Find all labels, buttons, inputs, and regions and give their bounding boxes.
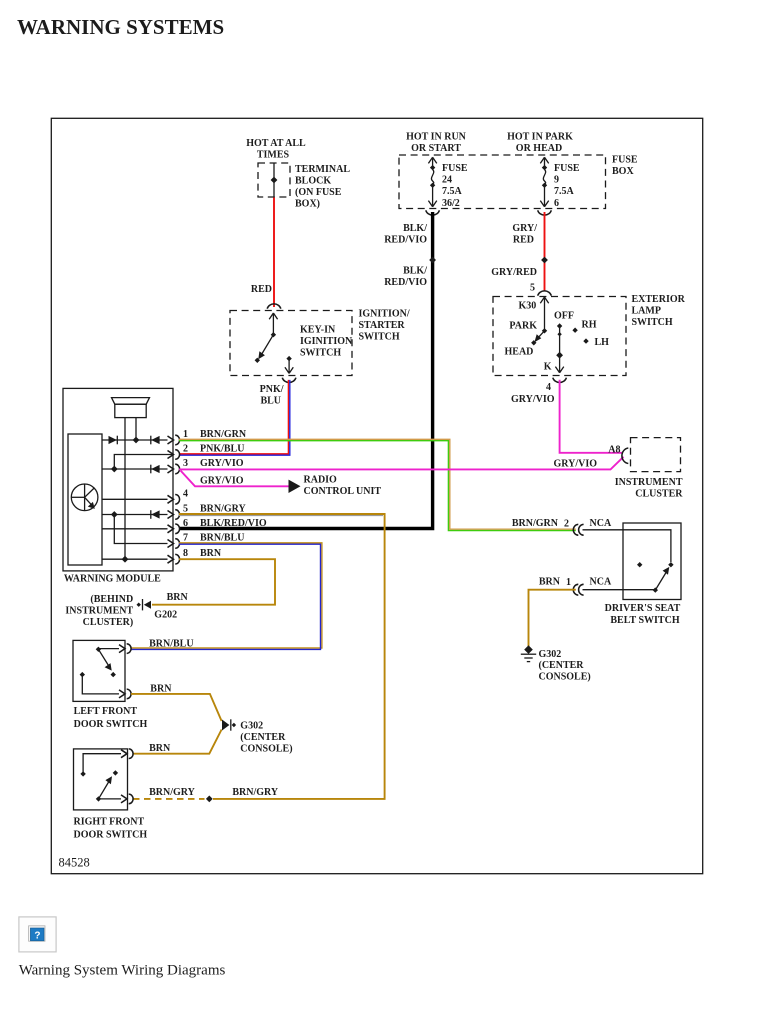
- svg-text:BRN/GRN: BRN/GRN: [200, 429, 247, 440]
- svg-text:24: 24: [442, 175, 452, 186]
- svg-text:1: 1: [566, 577, 571, 588]
- wire BRN pin 8 to ground G202: [152, 559, 275, 605]
- svg-text:4: 4: [183, 488, 188, 499]
- wire PNK/BLU pink strand: [179, 380, 288, 454]
- wire BRN/GRY gray strand pin 5: [179, 514, 383, 516]
- svg-text:BRN: BRN: [149, 743, 171, 754]
- svg-text:BLK/: BLK/: [403, 223, 427, 234]
- svg-text:HOT IN PARK: HOT IN PARK: [507, 132, 573, 143]
- lamp switch wiper arm toward HEAD: [534, 331, 544, 342]
- right door switch top contact and lead: [80, 754, 121, 777]
- svg-text:INSTRUMENT: INSTRUMENT: [615, 477, 683, 488]
- label RADIO CONTROL UNIT: [304, 475, 382, 498]
- svg-text:GRY/VIO: GRY/VIO: [200, 475, 244, 486]
- seat belt switch upper contact: [668, 562, 673, 567]
- svg-text:BRN/GRN: BRN/GRN: [512, 518, 559, 529]
- svg-text:2: 2: [564, 519, 569, 530]
- ground G302 center console (seat belt): [521, 645, 536, 661]
- svg-text:5: 5: [530, 283, 535, 294]
- lamp switch LH contact: [583, 338, 588, 343]
- svg-text:DOOR SWITCH: DOOR SWITCH: [74, 719, 148, 730]
- svg-text:BRN: BRN: [200, 548, 222, 559]
- svg-text:9: 9: [554, 175, 559, 186]
- svg-text:2: 2: [183, 444, 188, 455]
- lamp switch HEAD contact: [531, 340, 536, 345]
- svg-text:36/2: 36/2: [442, 198, 460, 209]
- module pin 8 connector: [168, 554, 180, 564]
- wire BRN/GRN green strand: [179, 441, 576, 531]
- svg-text:NCA: NCA: [590, 577, 612, 588]
- svg-text:PNK/: PNK/: [260, 384, 284, 395]
- svg-text:(BEHIND: (BEHIND: [90, 594, 133, 605]
- driver's seat belt switch box: [623, 523, 681, 600]
- svg-text:7: 7: [183, 533, 188, 544]
- seat belt pin 2 connector: [573, 524, 583, 535]
- junction diamond speaker to row 8: [122, 556, 129, 563]
- broken image icon box: [19, 917, 56, 952]
- svg-text:GRY/VIO: GRY/VIO: [553, 459, 597, 470]
- svg-text:BRN: BRN: [150, 684, 172, 695]
- svg-text:BLOCK: BLOCK: [295, 176, 331, 187]
- label HOT IN RUN OR START: [406, 132, 467, 155]
- module row 8 lead: [102, 558, 168, 560]
- svg-text:BRN/BLU: BRN/BLU: [200, 533, 244, 544]
- seat belt switch wiper arm: [655, 567, 669, 590]
- svg-text:CONSOLE): CONSOLE): [539, 672, 591, 683]
- right door switch wiper arm: [99, 776, 113, 799]
- left door switch wiper arm: [98, 649, 111, 670]
- svg-text:GRY/RED: GRY/RED: [491, 267, 537, 278]
- key-in ignition switch (dashed box): [230, 311, 352, 376]
- seat belt pin 1 lead: [583, 589, 656, 591]
- left door switch pin 1 connector: [119, 644, 131, 654]
- svg-text:LEFT FRONT: LEFT FRONT: [74, 706, 138, 717]
- label INSTRUMENT CLUSTER: [615, 477, 684, 500]
- svg-text:SWITCH: SWITCH: [632, 317, 673, 328]
- svg-text:SWITCH: SWITCH: [359, 332, 400, 343]
- diagram border frame: [51, 118, 702, 873]
- label KEY-IN IGINITION SWITCH: [300, 325, 353, 359]
- label BRN 1 NCA at seat belt switch: [539, 577, 612, 589]
- fuse box (dashed): [399, 155, 606, 209]
- svg-text:WARNING MODULE: WARNING MODULE: [64, 574, 161, 585]
- ignition switch output connector: [282, 378, 296, 383]
- left door switch bottom contact and lead: [80, 672, 119, 694]
- lamp switch OFF lower tick: [557, 332, 561, 336]
- svg-text:BELT SWITCH: BELT SWITCH: [610, 615, 679, 626]
- seat belt switch open contact: [637, 562, 642, 567]
- svg-text:CONTROL UNIT: CONTROL UNIT: [304, 486, 382, 497]
- svg-text:PNK/BLU: PNK/BLU: [200, 444, 244, 455]
- wire BRN seat belt pin 1 to ground: [529, 590, 576, 646]
- svg-text:GRY/VIO: GRY/VIO: [200, 458, 244, 469]
- svg-text:BRN: BRN: [539, 577, 561, 588]
- module row 1 lead with diodes: [102, 436, 168, 445]
- svg-text:FUSE: FUSE: [554, 163, 580, 174]
- label (BEHIND INSTRUMENT CLUSTER): [65, 594, 133, 628]
- fuse 24 symbol: [428, 157, 436, 207]
- module chime timer symbol: [71, 484, 98, 511]
- svg-text:Warning System Wiring Diagrams: Warning System Wiring Diagrams: [19, 963, 226, 979]
- module row 5 lead with diode: [102, 510, 168, 519]
- label BRN/GRN 2 NCA at seat belt switch: [512, 518, 612, 530]
- svg-text:RED/VIO: RED/VIO: [384, 277, 427, 288]
- module pin 7 connector: [168, 539, 180, 549]
- seat belt switch pivot contact: [653, 587, 658, 592]
- svg-text:NCA: NCA: [590, 518, 612, 529]
- svg-text:7.5A: 7.5A: [442, 186, 463, 197]
- module row 5 to row 7 branch lead: [114, 515, 167, 544]
- svg-text:CLUSTER): CLUSTER): [83, 617, 134, 628]
- junction diamond row 2 to row 3: [111, 466, 118, 473]
- label GRY/RED lower: [491, 267, 537, 278]
- connector under fuse 24: [426, 210, 440, 215]
- svg-text:BLK/RED/VIO: BLK/RED/VIO: [200, 518, 267, 529]
- instrument cluster (dashed box): [631, 438, 681, 472]
- svg-text:8: 8: [183, 548, 188, 559]
- svg-text:INSTRUMENT: INSTRUMENT: [65, 606, 133, 617]
- svg-text:5: 5: [183, 504, 188, 515]
- svg-text:TERMINAL: TERMINAL: [295, 164, 350, 175]
- svg-text:LAMP: LAMP: [632, 306, 661, 317]
- wire BRN left door to ground G302: [131, 694, 222, 721]
- svg-text:OR START: OR START: [411, 143, 461, 154]
- junction diamond row 5 branch: [111, 511, 118, 518]
- wire RED terminal block to ignition switch: [273, 198, 275, 308]
- warning module box: [63, 388, 173, 571]
- terminal block internal lead: [273, 163, 275, 198]
- junction diamond on output lead: [556, 352, 563, 359]
- radio control unit arrow: [289, 480, 301, 493]
- svg-text:CONSOLE): CONSOLE): [240, 744, 292, 755]
- svg-text:(ON FUSE: (ON FUSE: [295, 187, 342, 198]
- svg-text:WARNING SYSTEMS: WARNING SYSTEMS: [17, 15, 224, 39]
- svg-text:BRN/GRY: BRN/GRY: [149, 787, 196, 798]
- svg-text:RIGHT FRONT: RIGHT FRONT: [74, 817, 145, 828]
- svg-text:GRY/: GRY/: [512, 223, 537, 234]
- module pin 5 connector: [168, 510, 180, 520]
- label DRIVER'S SEAT BELT SWITCH: [605, 603, 681, 626]
- module pin 6 connector: [168, 524, 180, 534]
- ignition switch common contact: [271, 332, 276, 337]
- label LEFT FRONT DOOR SWITCH: [74, 706, 148, 730]
- junction diamond on BLK/RED/VIO: [429, 257, 436, 264]
- svg-text:4: 4: [546, 382, 551, 393]
- terminal block (dashed box): [258, 163, 290, 197]
- svg-text:RED: RED: [513, 235, 534, 246]
- fuse 9 symbol: [540, 157, 548, 207]
- right door switch pivot contact and lead: [96, 796, 121, 801]
- right door switch pin 1 connector: [121, 749, 133, 759]
- wire PNK/BLU blue strand: [179, 380, 290, 455]
- svg-text:?: ?: [34, 931, 40, 942]
- svg-text:RH: RH: [582, 320, 597, 331]
- label BLK/RED/VIO upper: [384, 223, 427, 246]
- module row 2 lead: [114, 455, 173, 470]
- label HOT AT ALL TIMES: [246, 138, 306, 161]
- fuse 9 labels FUSE 9 7.5A 6: [554, 163, 580, 209]
- label FUSE BOX: [612, 155, 638, 178]
- label BLK/RED/VIO lower: [384, 266, 427, 289]
- module row 3 lead with diode: [102, 465, 168, 474]
- svg-text:RED: RED: [251, 284, 272, 295]
- svg-text:EXTERIOR: EXTERIOR: [632, 294, 686, 305]
- svg-text:3: 3: [183, 458, 188, 469]
- svg-text:BOX): BOX): [295, 199, 320, 210]
- svg-text:K: K: [544, 362, 552, 373]
- ignition switch lower contact: [255, 358, 260, 363]
- module row 6 lead: [102, 528, 168, 530]
- svg-text:FUSE: FUSE: [442, 163, 468, 174]
- svg-text:HOT AT ALL: HOT AT ALL: [246, 138, 306, 149]
- svg-text:STARTER: STARTER: [359, 320, 406, 331]
- wire BLK/RED/VIO from fuse 24 to module pin 6: [179, 212, 433, 529]
- svg-text:BRN/GRY: BRN/GRY: [232, 787, 279, 798]
- svg-text:BLK/: BLK/: [403, 266, 427, 277]
- lamp switch output lead with arrow: [555, 326, 563, 373]
- junction diamond speaker to row 1: [133, 437, 140, 444]
- wire labels rows 1-8: [200, 429, 267, 559]
- svg-text:IGNITION/: IGNITION/: [359, 309, 410, 320]
- module internal logic block: [68, 434, 102, 565]
- label G302 (CENTER CONSOLE) at door ground: [240, 721, 292, 755]
- svg-text:K30: K30: [519, 301, 537, 312]
- lamp switch RH contact: [572, 328, 577, 333]
- left door switch top contact: [96, 647, 101, 652]
- module row 4 lead: [102, 498, 168, 500]
- right door switch upper contact: [113, 770, 118, 775]
- svg-text:RADIO: RADIO: [304, 475, 338, 486]
- wire GRY/VIO pin 3 to instrument cluster A8: [179, 457, 624, 470]
- left door switch top pin lead: [98, 648, 119, 650]
- wire GRY/VIO branch to radio control unit: [181, 471, 290, 487]
- svg-text:SWITCH: SWITCH: [300, 348, 341, 359]
- svg-text:6: 6: [183, 518, 188, 529]
- svg-text:DOOR SWITCH: DOOR SWITCH: [74, 830, 148, 841]
- svg-text:A8: A8: [608, 445, 620, 456]
- svg-text:G302: G302: [240, 721, 263, 732]
- svg-text:BRN/BLU: BRN/BLU: [149, 639, 193, 650]
- wire GRY/VIO lamp switch to instrument cluster A8: [560, 380, 623, 453]
- svg-text:BRN/GRY: BRN/GRY: [200, 504, 247, 515]
- junction diamond on GRY/RED: [541, 257, 548, 264]
- right door switch pin 2 connector: [121, 794, 133, 804]
- svg-text:HEAD: HEAD: [505, 347, 534, 358]
- label RIGHT FRONT DOOR SWITCH: [74, 817, 148, 841]
- svg-text:RED/VIO: RED/VIO: [384, 235, 427, 246]
- label HOT IN PARK OR HEAD: [507, 132, 573, 155]
- svg-text:FUSE: FUSE: [612, 155, 638, 166]
- svg-text:G302: G302: [539, 649, 562, 660]
- svg-text:OFF: OFF: [554, 311, 574, 322]
- exterior lamp switch (dashed box): [493, 297, 626, 376]
- ground G302 center console (door switches): [222, 719, 236, 730]
- wire BRN/BLU brown strand pin 7 to left door switch: [131, 543, 322, 648]
- svg-text:OR HEAD: OR HEAD: [516, 143, 562, 154]
- wire BRN right door to ground G302: [133, 730, 222, 754]
- lamp switch input arrow: [540, 297, 548, 331]
- module pin 3 connector: [168, 464, 180, 474]
- ignition switch output contact: [286, 356, 291, 361]
- module pin 4 connector: [168, 495, 180, 505]
- svg-text:KEY-IN: KEY-IN: [300, 325, 336, 336]
- label IGNITION/ STARTER SWITCH: [359, 309, 410, 343]
- svg-text:DRIVER'S SEAT: DRIVER'S SEAT: [605, 603, 681, 614]
- ignition switch output lead with arrow: [285, 359, 293, 374]
- wire BRN/GRN brown strand pin 1 to seat belt switch: [179, 439, 576, 529]
- ignition switch wiper arm: [258, 335, 273, 360]
- wire GRY/RED from fuse 9 to exterior lamp switch: [544, 212, 546, 292]
- right front door switch box: [74, 749, 128, 810]
- label GRY/RED upper: [512, 223, 537, 246]
- junction diamond BRN/GRY: [206, 796, 213, 803]
- left door switch pin 2 connector: [119, 689, 131, 699]
- wire BRN/BLU blue strand: [131, 544, 321, 649]
- connector K30 at lamp switch top: [538, 291, 552, 296]
- connector A8: [622, 448, 628, 464]
- wire BRN/GRY brown strand pin 5 to right door switch: [179, 514, 385, 799]
- svg-text:PARK: PARK: [509, 321, 537, 332]
- wire BRN/GRY dashed segment to right door switch: [133, 798, 205, 800]
- lamp switch common contact: [542, 328, 547, 333]
- ground G202 behind instrument cluster: [137, 599, 152, 610]
- svg-text:LH: LH: [595, 337, 610, 348]
- ignition switch input connector: [267, 304, 281, 309]
- connector under fuse 9: [538, 210, 552, 215]
- seat belt pin 1 connector: [573, 584, 583, 595]
- svg-text:G202: G202: [154, 610, 177, 621]
- svg-text:GRY/VIO: GRY/VIO: [511, 394, 555, 405]
- lamp switch OFF contact: [557, 323, 562, 328]
- ignition switch input arrow: [269, 313, 277, 335]
- svg-text:IGINITION: IGINITION: [300, 336, 353, 347]
- module speaker symbol: [112, 398, 150, 560]
- svg-text:CLUSTER: CLUSTER: [635, 489, 683, 500]
- left door switch lower contact: [111, 672, 116, 677]
- label EXTERIOR LAMP SWITCH: [632, 294, 686, 328]
- pin numbers 1-8: [183, 429, 188, 559]
- label TERMINAL BLOCK (ON FUSE BOX): [295, 164, 350, 210]
- svg-text:BLU: BLU: [260, 396, 281, 407]
- svg-text:7.5A: 7.5A: [554, 186, 575, 197]
- svg-text:BOX: BOX: [612, 166, 634, 177]
- label G302 (CENTER CONSOLE) at seat belt ground: [539, 649, 591, 683]
- module pin 1 connector: [168, 435, 180, 445]
- svg-text:BRN: BRN: [167, 592, 189, 603]
- label PNK/ BLU: [260, 384, 284, 407]
- module pin 2 connector: [168, 450, 180, 460]
- junction diamond on terminal block: [271, 177, 278, 184]
- left front door switch box: [73, 640, 125, 701]
- svg-text:HOT IN RUN: HOT IN RUN: [406, 132, 467, 143]
- fuse 24 labels FUSE 24 7.5A 36/2: [442, 163, 468, 209]
- seat belt pin 2 lead: [583, 530, 671, 562]
- svg-text:TIMES: TIMES: [257, 150, 290, 161]
- connector K at lamp switch bottom: [553, 378, 567, 383]
- svg-text:6: 6: [554, 198, 559, 209]
- svg-text:84528: 84528: [59, 856, 90, 870]
- svg-text:(CENTER: (CENTER: [240, 732, 286, 743]
- svg-text:(CENTER: (CENTER: [539, 660, 585, 671]
- svg-text:1: 1: [183, 429, 188, 440]
